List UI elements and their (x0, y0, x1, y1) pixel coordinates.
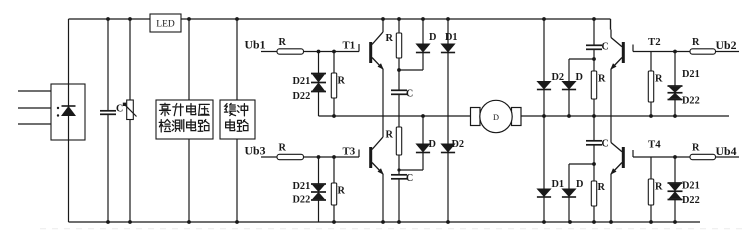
junction T4 emitter bottom-rail (609, 220, 613, 224)
resistor R snubber T4 (591, 181, 596, 206)
transistor T4 emitter (610, 163, 622, 223)
junction detection bottom (187, 220, 191, 224)
label D22 T4 (682, 195, 700, 206)
wire snubber R3 upper (398, 116, 400, 127)
junction snubber D T2 mid-rail (567, 114, 571, 118)
label C snubber T4 (602, 139, 609, 150)
wire top rail left segment (69, 18, 151, 20)
capacitor C filter wire top (107, 19, 109, 111)
label D snubber T1 (429, 32, 436, 43)
label buffer box text line2 (circuit) (226, 119, 248, 131)
resistor R snubber T1 (396, 33, 401, 58)
diode D21 D22 clamp T1 (311, 74, 326, 92)
svg-text:D21: D21 (682, 181, 700, 192)
transistor T4 body bar (622, 147, 625, 168)
label R series Ub4 (692, 143, 700, 154)
diode D snubber T4 (561, 189, 576, 198)
wire clamp upper T1 (318, 52, 320, 74)
label T2 (648, 36, 661, 48)
svg-text:D: D (576, 179, 583, 190)
wire detection box bottom (188, 139, 190, 222)
wire clamp lower T3 (318, 200, 320, 222)
svg-text:R: R (386, 130, 394, 141)
svg-text:C: C (116, 104, 123, 115)
junction snubber T4 RC (592, 162, 596, 166)
svg-text:D22: D22 (682, 195, 700, 206)
label LED (156, 20, 175, 30)
block buffer circuit box (220, 100, 255, 139)
wire gate R upper T1 (333, 52, 335, 74)
capacitor C filter wire bottom (107, 114, 109, 222)
wire snubber T4 jog (569, 163, 594, 165)
label D1 freewheel right (552, 179, 565, 190)
junction varistor top (128, 17, 132, 21)
svg-text:R: R (598, 74, 606, 85)
wire freewheel D2 column (447, 116, 449, 222)
wire mid rail left (319, 115, 472, 117)
label T1 (343, 40, 356, 52)
junction snubber C3 bottom-rail (397, 220, 401, 224)
junction buffer bottom (235, 220, 239, 224)
label motor D (493, 113, 499, 122)
wire left vertical rail (68, 19, 70, 222)
resistor R gate-emitter T1 (331, 73, 336, 98)
resistor R series Ub2 (690, 49, 716, 54)
junction D1 top-rail (446, 17, 450, 21)
resistor R snubber T2 (591, 71, 596, 99)
junction D2 bottom-rail (446, 220, 450, 224)
wire gate R lower T3 (333, 205, 335, 222)
junction T3 emitter bottom-rail (381, 220, 385, 224)
svg-text:D2: D2 (452, 139, 465, 150)
node AC input line 2 (18, 107, 51, 109)
transistor T1 collector (372, 19, 383, 45)
label T3 (343, 146, 356, 158)
wire snubber R4 lower (593, 206, 595, 222)
junction snubber D T4 bottom-rail (568, 220, 572, 224)
svg-text:R: R (692, 37, 700, 48)
svg-text:T2: T2 (648, 36, 661, 48)
junction gate R bottom T2 (649, 114, 653, 118)
node AC input line 3 (18, 123, 51, 125)
wire gate R lower T2 (650, 102, 652, 116)
transistor T2 body bar (622, 42, 625, 63)
junction snubber T2 RC (592, 57, 596, 61)
wire buffer box bottom (236, 139, 238, 222)
label D22 T2 (682, 96, 700, 107)
resistor R gate-emitter T2 (648, 71, 653, 102)
wire mid rail right (521, 115, 729, 117)
label C snubber T1 (406, 89, 413, 100)
svg-text:T4: T4 (648, 139, 661, 151)
svg-text:Ub3: Ub3 (245, 144, 266, 158)
wire snubber C2 lower (593, 49, 595, 59)
svg-text:D22: D22 (293, 91, 311, 102)
svg-text:R: R (279, 143, 287, 154)
label R gate-emitter T4 (655, 182, 663, 193)
label Ub4 (716, 144, 737, 158)
junction clamp bottom T2 (673, 114, 677, 118)
junction detection top (187, 17, 191, 21)
wire snubber C1 lower (398, 94, 400, 116)
svg-text:D1: D1 (552, 179, 565, 190)
svg-text:D: D (493, 113, 499, 122)
motor right brush (512, 108, 522, 126)
svg-text:R: R (338, 186, 346, 197)
transistor T3 body bar (369, 147, 372, 168)
wire top rail corner to T2 (610, 19, 612, 30)
wire gate R upper T3 (333, 157, 335, 183)
junction snubber T1 RC (397, 68, 401, 72)
scan artifact line (40, 228, 742, 230)
wire snubber C3 lower (398, 179, 400, 222)
wire freewheel right column upper (543, 19, 545, 116)
diode D21 D22 clamp T2 (668, 86, 683, 100)
wire snubber D T3 upper (422, 116, 424, 144)
diode D snubber T2 (561, 81, 576, 90)
junction gate R top T1 (332, 50, 336, 54)
LED indicator box (150, 14, 181, 32)
label D snubber T2 (576, 72, 583, 83)
junction speck b (57, 114, 59, 116)
wire snubber R3 to junction (398, 155, 400, 170)
label Ub3 (245, 144, 266, 158)
svg-text:R: R (386, 33, 394, 44)
svg-text:LED: LED (156, 20, 175, 30)
svg-text:C: C (406, 89, 413, 100)
wire clamp lower T1 (318, 92, 320, 117)
diode D snubber T1 (415, 44, 430, 53)
transistor T2 collector (611, 30, 622, 47)
svg-text:D1: D1 (445, 32, 458, 43)
gate lead tick T3 (358, 150, 360, 158)
junction clamp top T3 (317, 155, 321, 159)
junction clamp top T2 (673, 50, 677, 54)
svg-text:C: C (602, 42, 609, 53)
svg-text:D: D (576, 72, 583, 83)
wire snubber R2 lower (593, 99, 595, 116)
label Ub1 (245, 38, 266, 52)
transistor T1 emitter (372, 58, 384, 117)
diode inside rectifier (61, 106, 76, 116)
wire snubber R4 upper (593, 164, 595, 181)
wire snubber T3 jog (399, 169, 423, 171)
transistor T4 collector (611, 116, 622, 152)
label Ub2 (716, 38, 737, 52)
junction T1 collector top-rail (381, 17, 385, 21)
wire T4 base drive (633, 156, 739, 158)
transistor T3 collector (372, 116, 383, 150)
wire gate R upper T4 (650, 157, 652, 179)
diode D2 freewheel (440, 144, 455, 153)
wire gate R upper T2 (650, 52, 652, 72)
junction D2r top-rail (542, 17, 546, 21)
junction varistor bottom (128, 220, 132, 224)
svg-text:T1: T1 (343, 40, 356, 52)
label D1 freewheel (445, 32, 458, 43)
diode D snubber T3 (415, 144, 430, 153)
svg-text:Ub4: Ub4 (716, 144, 737, 158)
wire snubber T2 jog (569, 58, 594, 60)
junction gate R bottom T1 (332, 114, 336, 118)
label D snubber T4 (576, 179, 583, 190)
svg-text:R: R (338, 76, 346, 87)
label C filter (116, 104, 123, 115)
diode D1 freewheel right (536, 189, 551, 198)
capacitor C snubber T4 (586, 141, 602, 145)
wire snubber D T1 upper (422, 19, 424, 44)
diode D1 freewheel (440, 44, 455, 53)
label R snubber T4 (598, 182, 606, 193)
wire buffer box top (236, 19, 238, 100)
wire gate R lower T1 (333, 98, 335, 116)
resistor R snubber T3 (396, 127, 401, 155)
label R series Ub1 (279, 37, 287, 48)
capacitor C snubber T1 (391, 90, 407, 94)
label D21 T3 (293, 181, 311, 192)
resistor R series Ub3 (277, 154, 304, 159)
label R series Ub2 (692, 37, 700, 48)
svg-text:R: R (655, 74, 663, 85)
label R gate-emitter T1 (338, 76, 346, 87)
gate lead tick T1 (358, 44, 360, 52)
svg-text:Ub2: Ub2 (716, 38, 737, 52)
junction clamp top T1 (317, 50, 321, 54)
wire top rail middle segment (181, 18, 611, 20)
wire snubber T1 jog (399, 69, 423, 71)
wire clamp lower T4 (674, 200, 676, 223)
label detection box text line1 (pump-up voltage) (159, 103, 209, 116)
wire snubber D T2 lower (568, 90, 570, 117)
wire clamp upper T3 (318, 157, 320, 184)
diode D2 freewheel right (536, 81, 551, 90)
wire clamp lower T2 (674, 100, 676, 117)
svg-text:Ub1: Ub1 (245, 38, 266, 52)
capacitor C filter (100, 111, 116, 115)
label D22 T1 (293, 91, 311, 102)
gate lead tick T4 (632, 150, 634, 157)
wire snubber C1 upper (398, 70, 400, 90)
svg-text:R: R (279, 37, 287, 48)
junction freewheel right mid-rail (542, 114, 546, 118)
transistor T1 body bar (369, 42, 372, 63)
node AC input line 1 (18, 90, 51, 92)
wire detection box top (188, 19, 190, 100)
wire snubber D T1 lower (422, 53, 424, 71)
junction D1r bottom-rail (542, 220, 546, 224)
svg-text:R: R (598, 182, 606, 193)
wire freewheel right column lower (543, 116, 545, 222)
resistor R gate-emitter T3 (331, 183, 336, 205)
svg-text:D21: D21 (293, 181, 311, 192)
resistor R series Ub1 (277, 49, 304, 54)
label R gate-emitter T3 (338, 186, 346, 197)
label D21 T1 (293, 76, 311, 87)
svg-text:D21: D21 (682, 69, 700, 80)
label T4 (648, 139, 661, 151)
label D snubber T3 (429, 139, 436, 150)
svg-text:C: C (602, 139, 609, 150)
junction snubber R2 mid-rail (592, 114, 596, 118)
capacitor C snubber T2 (586, 45, 602, 49)
wire snubber C4 lower (593, 145, 595, 164)
junction snubber C2 top-rail (592, 17, 596, 21)
wire snubber R1 to junction (398, 58, 400, 70)
junction gate R top T3 (332, 155, 336, 159)
resistor R gate-emitter T4 (648, 179, 653, 205)
label R snubber T1 (386, 33, 394, 44)
label R snubber T3 (386, 130, 394, 141)
svg-text:D22: D22 (682, 96, 700, 107)
varistor RV wire (129, 19, 131, 222)
svg-text:C: C (406, 173, 413, 184)
label C snubber T3 (406, 173, 413, 184)
junction snubber T3 RC (397, 168, 400, 171)
wire snubber R2 upper (593, 59, 595, 71)
resistor R series Ub4 (690, 154, 716, 159)
junction gate R bottom T3 (332, 220, 336, 224)
capacitor C snubber T3 (391, 175, 407, 179)
wire T3 base drive (261, 156, 359, 158)
svg-text:D22: D22 (293, 195, 311, 206)
gate lead tick T2 (632, 45, 634, 52)
wire snubber C2 upper (593, 19, 595, 45)
svg-text:T3: T3 (343, 146, 356, 158)
junction snubber D3col mid-rail (421, 114, 425, 118)
wire bottom rail (69, 221, 701, 223)
label R gate-emitter T2 (655, 74, 663, 85)
junction clamp top T4 (673, 155, 677, 159)
wire snubber D T4 lower (568, 197, 570, 222)
svg-text:R: R (692, 143, 700, 154)
wire T2 base drive (633, 51, 739, 53)
wire snubber R1 upper (398, 19, 400, 33)
junction filter-cap bottom (106, 220, 110, 224)
label D2 freewheel right (552, 72, 565, 83)
diode D21 D22 clamp T4 (668, 183, 683, 200)
label R series Ub3 (279, 143, 287, 154)
junction snubber R1 top-rail (397, 17, 401, 21)
label buffer box text line1 (buffer) (224, 103, 247, 116)
wire T1 base drive (261, 51, 359, 53)
junction buffer top (235, 17, 239, 21)
rectifier bridge VD box (51, 84, 85, 140)
wire clamp upper T4 (674, 157, 676, 183)
junction snubber R4 bottom-rail (592, 220, 596, 224)
wire clamp upper T2 (674, 52, 676, 87)
label D21 T4 (682, 181, 700, 192)
label D2 freewheel (452, 139, 465, 150)
label D22 T3 (293, 195, 311, 206)
diode D21 D22 clamp T3 (311, 184, 326, 200)
junction snubber D1col top-rail (421, 17, 425, 21)
label D21 T2 (682, 69, 700, 80)
svg-text:D: D (429, 139, 436, 150)
junction filter-cap top (106, 17, 110, 21)
wire snubber D T4 upper (568, 164, 570, 189)
wire snubber C3 upper (398, 170, 400, 175)
block pump-up voltage detection box (156, 100, 213, 139)
motor left brush (471, 108, 481, 126)
label R snubber T2 (598, 74, 606, 85)
transistor T3 emitter (372, 163, 384, 223)
transistor T2 emitter (610, 58, 622, 117)
svg-text:D21: D21 (293, 76, 311, 87)
junction clamp bottom T4 (673, 220, 677, 224)
svg-text:D: D (429, 32, 436, 43)
label detection box text line2 (detection circuit) (159, 119, 209, 132)
wire freewheel D1 column (447, 19, 449, 116)
label C snubber T2 (602, 42, 609, 53)
wire gate R lower T4 (650, 205, 652, 222)
wire snubber D T3 lower (422, 153, 424, 171)
wire snubber C4 upper (593, 116, 595, 141)
wire snubber D T2 upper (568, 59, 570, 81)
svg-text:R: R (655, 182, 663, 193)
motor D body (480, 100, 512, 132)
junction gate R bottom T4 (649, 220, 653, 224)
varistor RV body (123, 100, 137, 120)
junction speck a (57, 107, 59, 109)
